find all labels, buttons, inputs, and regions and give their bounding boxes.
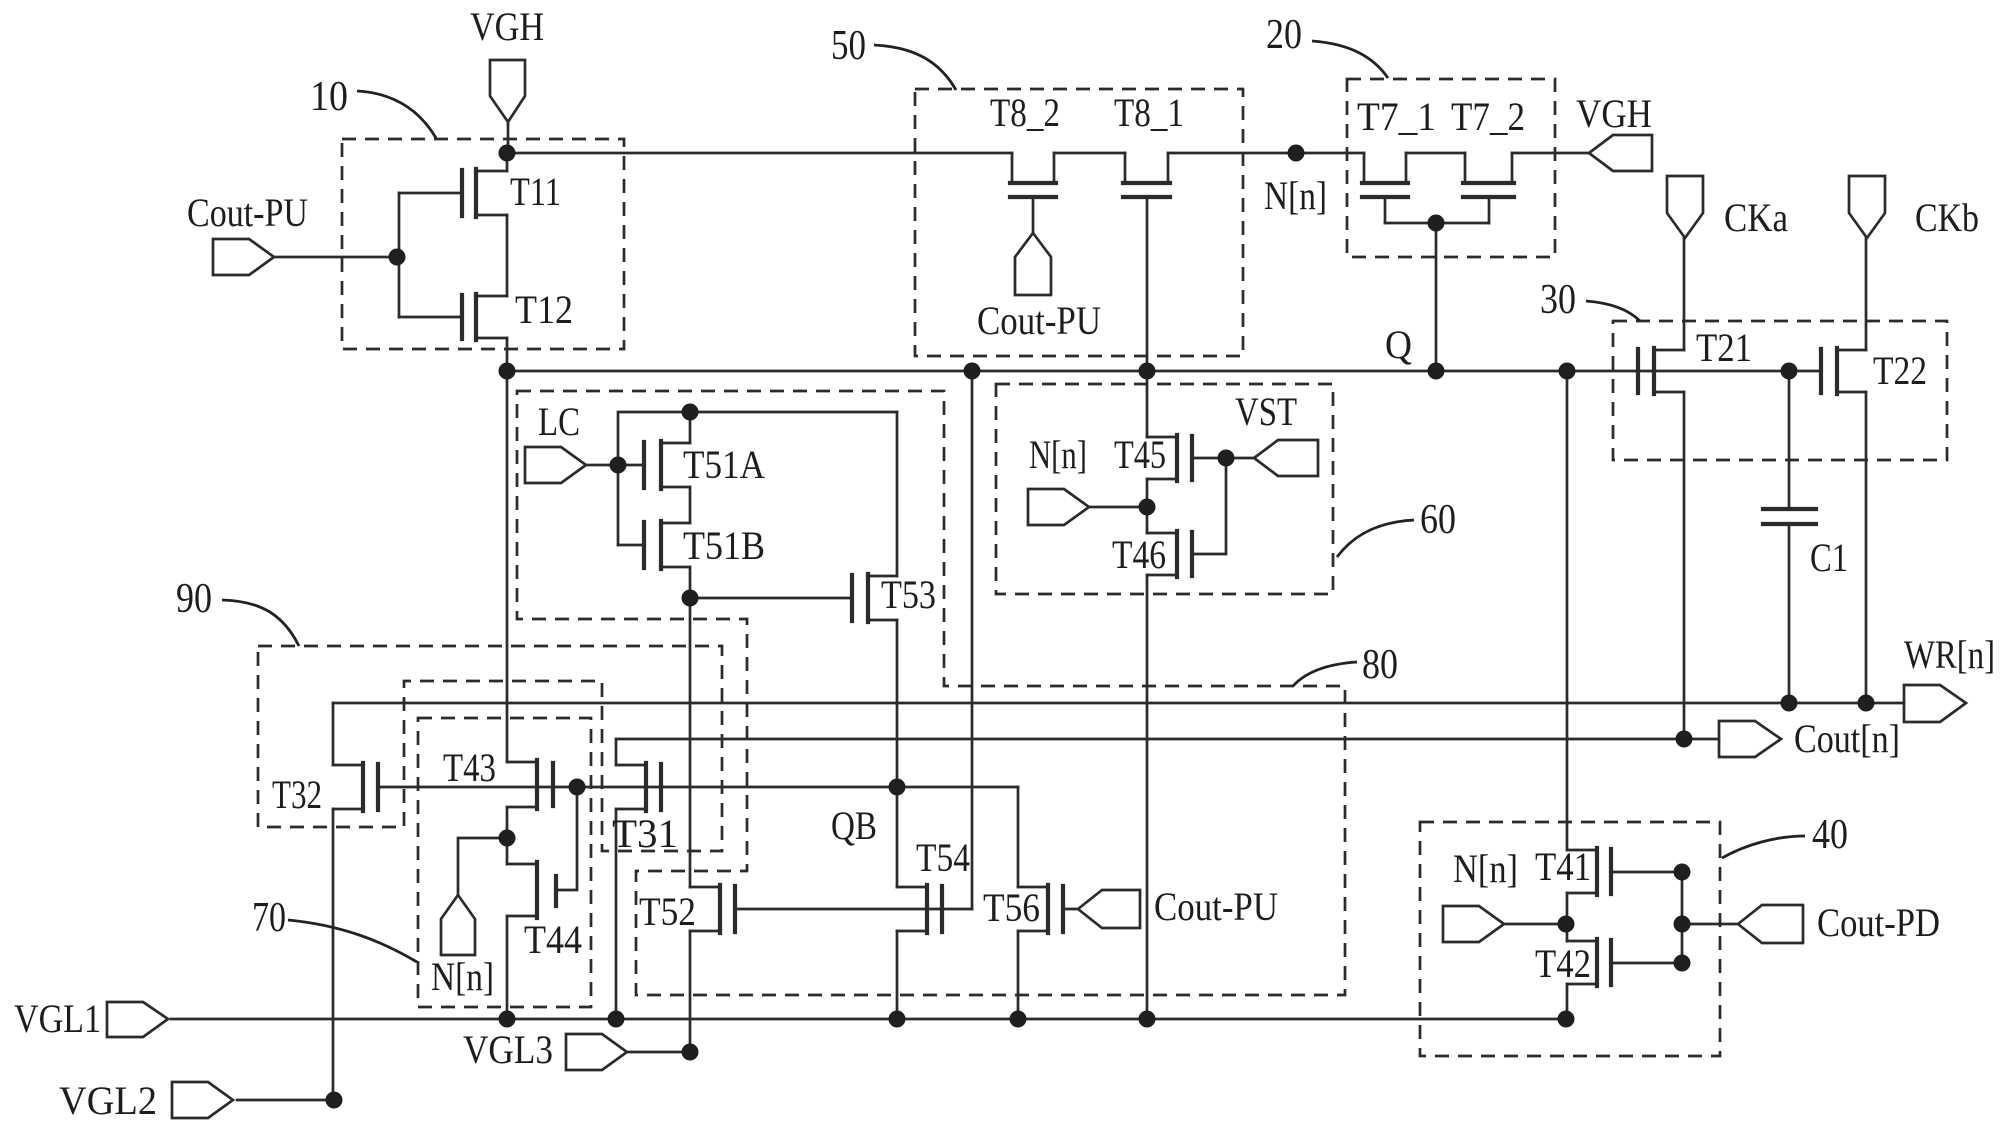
wire T46 source down to VGL1 — [1146, 575, 1149, 1019]
svg-text:Cout-PU: Cout-PU — [977, 298, 1101, 343]
wire T8_2 gate lead to Cout-PU terminal — [1032, 197, 1035, 233]
label 60 with leader — [1337, 497, 1456, 557]
wire T32 drain from WR rail — [332, 703, 335, 765]
svg-text:T11: T11 — [510, 169, 561, 214]
svg-text:VGL2: VGL2 — [59, 1078, 157, 1123]
node T51A drain rail — [682, 404, 699, 421]
wire T52/T54 gate rail — [735, 908, 972, 911]
transistor T42 — [1567, 939, 1682, 986]
node Q at T12 source — [499, 363, 516, 380]
node Cout[n] rail — [616, 738, 1719, 741]
node Q rail — [507, 370, 1821, 373]
svg-text:VGL3: VGL3 — [463, 1027, 553, 1072]
wire T43/T44 gate link vertical — [556, 787, 577, 890]
terminal VGH (top) — [490, 60, 525, 122]
svg-text:QB: QB — [831, 803, 877, 848]
svg-text:N[n]: N[n] — [431, 954, 494, 999]
wire T41 source to N[n] node to T42 drain — [1566, 893, 1569, 941]
transistor T41 — [1567, 848, 1682, 895]
transistor T56 — [1018, 885, 1078, 933]
wire T53 source down to QB node and T54 drain — [896, 620, 899, 887]
terminal Cout-PU (block 80) — [1078, 890, 1140, 928]
wire T21 source down to Cout rail — [1683, 392, 1686, 739]
block 10 dashed box — [342, 139, 624, 349]
wire T31 source down to VGL1 — [615, 809, 618, 1019]
block 90 dashed outline — [258, 646, 722, 851]
svg-text:T53: T53 — [881, 572, 936, 617]
node N[n] block 60 junction — [1139, 499, 1156, 516]
transistor T45 — [1147, 435, 1226, 481]
transistor T54 — [897, 885, 942, 933]
node VGL2 junction — [326, 1092, 343, 1109]
svg-text:CKb: CKb — [1915, 195, 1979, 240]
svg-text:T7_2: T7_2 — [1451, 94, 1525, 139]
node Q at T7 gate branch — [1428, 363, 1445, 380]
node VST gate junction — [1218, 450, 1235, 467]
wire T32 source down to VGL2 node — [332, 809, 335, 1100]
terminal VGL1 — [107, 1002, 168, 1037]
transistor T32 — [333, 763, 378, 811]
wire T12 source to Q rail — [506, 338, 509, 371]
transistor T12 — [399, 294, 507, 340]
svg-text:VGH: VGH — [1576, 91, 1652, 136]
wire top rail corner down to T53 drain — [896, 412, 899, 576]
wire QB-driver node to T53 gate — [690, 597, 852, 600]
transistor T31 — [616, 763, 661, 811]
svg-text:50: 50 — [831, 23, 866, 69]
transistor T21 — [1638, 348, 1684, 394]
transistor T44 — [507, 862, 556, 918]
svg-text:T8_1: T8_1 — [1114, 90, 1184, 135]
wire T43 source to N[n] node to T44 drain — [506, 809, 509, 864]
svg-text:VST: VST — [1235, 389, 1297, 434]
wire VGL2 terminal to T32 line — [237, 1099, 334, 1102]
node Q at C1/T22 gate — [1781, 363, 1798, 380]
wire T52 source down to VGL3 node — [689, 931, 692, 1052]
wire top rail segment (T8_1 to N[n] node and T7_1) — [1168, 152, 1364, 155]
wire N[n] terminal to node (block 40) — [1504, 923, 1567, 926]
terminal CKb — [1849, 176, 1885, 238]
svg-text:T56: T56 — [983, 885, 1040, 930]
svg-text:T21: T21 — [1696, 325, 1752, 370]
node T41 gate junction — [1674, 864, 1691, 881]
svg-text:70: 70 — [252, 895, 286, 941]
node Cout-PU gate junction — [389, 249, 406, 266]
node N[n] block 40 junction — [1558, 916, 1575, 933]
svg-text:N[n]: N[n] — [1264, 173, 1327, 218]
terminal N[n] (block 40) — [1443, 906, 1504, 942]
svg-text:T52: T52 — [639, 889, 696, 934]
wire LC terminal to gate node — [586, 464, 618, 467]
node Cout-PD junction — [1674, 916, 1691, 933]
transistor T7_1 — [1362, 153, 1408, 223]
wire C1 top to Q rail — [1788, 371, 1791, 509]
svg-text:VGH: VGH — [470, 4, 544, 49]
svg-text:LC: LC — [538, 399, 580, 444]
svg-text:T54: T54 — [916, 835, 970, 880]
node T21 source on Cout rail — [1676, 731, 1693, 748]
block 40 dashed box — [1420, 822, 1720, 1056]
svg-text:T8_2: T8_2 — [990, 90, 1060, 135]
label 40 with leader — [1722, 812, 1848, 858]
node VGL1 rail — [171, 1018, 1566, 1021]
node T42 gate junction — [1674, 955, 1691, 972]
label 70 with leader — [252, 895, 417, 962]
node T7 gate junction — [1428, 215, 1445, 232]
node LC gate junction — [610, 457, 627, 474]
svg-text:40: 40 — [1812, 812, 1848, 858]
transistor T8_2 — [1010, 153, 1056, 197]
wire top rail segment (T7_1 to T7_2) — [1406, 152, 1465, 155]
svg-text:T45: T45 — [1114, 432, 1166, 477]
wire top VGH rail segment (node to T8_2) — [507, 152, 1012, 155]
block 50 dashed box — [915, 89, 1243, 356]
transistor T43 — [507, 760, 553, 809]
wire top rail segment (T8_2 to T8_1) — [1054, 152, 1125, 155]
svg-text:20: 20 — [1266, 12, 1302, 58]
svg-text:N[n]: N[n] — [1029, 432, 1087, 477]
node VGH junction — [499, 145, 516, 162]
block 30 dashed box — [1613, 321, 1947, 460]
svg-text:T22: T22 — [1873, 348, 1927, 393]
node VGL3 junction — [682, 1044, 699, 1061]
wire T11/T12 gate bus vertical — [398, 193, 401, 317]
wire T41/T42 gate link — [1681, 872, 1684, 963]
capacitor C1 — [1763, 509, 1816, 524]
wire T54 source down to VGL1 — [896, 931, 899, 1019]
svg-text:T51B: T51B — [683, 523, 765, 568]
node VGL1 at T44 — [499, 1011, 516, 1028]
terminal WR[n] — [1904, 685, 1966, 722]
node QB gate junction left — [569, 779, 586, 796]
block 80 dashed outline — [517, 391, 1345, 995]
svg-text:T44: T44 — [524, 917, 582, 962]
svg-text:T7_1: T7_1 — [1357, 94, 1436, 139]
terminal VGH (block 20) — [1589, 135, 1652, 171]
terminal N[n] (block 60) — [1028, 489, 1089, 525]
wire main vertical VGH node to T11 drain — [506, 154, 509, 171]
terminal Cout-PD — [1738, 905, 1803, 943]
terminal Cout[n] — [1719, 721, 1781, 757]
wire Q node down to gate rail — [971, 371, 974, 909]
svg-text:T41: T41 — [1535, 844, 1591, 889]
svg-text:T31: T31 — [612, 811, 678, 856]
node N[n] on top rail — [1288, 145, 1305, 162]
wire gate link to Cout-PD terminal — [1682, 923, 1738, 926]
terminal Cout-PU (block 50) — [1015, 233, 1051, 295]
node QB junction — [889, 779, 906, 796]
node VGL1 at T31 — [608, 1011, 625, 1028]
block 60 dashed box — [996, 384, 1333, 594]
wire VGH stub to top rail node — [507, 122, 510, 153]
svg-text:C1: C1 — [1810, 535, 1848, 580]
label 90 with leader — [176, 576, 299, 646]
svg-text:T12: T12 — [515, 287, 573, 332]
node T51B source junction — [682, 590, 699, 607]
wire T31 drain from Cout rail — [615, 739, 618, 765]
transistor T46 — [1147, 531, 1192, 577]
transistor T22 — [1821, 348, 1866, 394]
wire T42 source down to VGL1 — [1566, 984, 1569, 1019]
terminal CKa — [1667, 176, 1703, 238]
wire Q node down to T41 drain — [1566, 371, 1569, 850]
block 20 dashed box — [1347, 79, 1555, 257]
wire LC node vertical and T51 top rail — [618, 412, 897, 545]
terminal N[n] (block 70) — [441, 895, 475, 955]
wire T51A drain up to top rail — [689, 412, 692, 443]
node VGL1 at T46 — [1139, 1011, 1156, 1028]
node T22 source on WR rail — [1858, 695, 1875, 712]
svg-text:T32: T32 — [272, 772, 322, 817]
wire Q node down to T43 — [506, 371, 509, 762]
wire top rail segment (T7_2 to VGH terminal) — [1512, 152, 1589, 155]
svg-text:10: 10 — [310, 74, 348, 120]
wire CKb down to T22 drain — [1865, 238, 1868, 350]
wire T44 source down to VGL1 — [506, 916, 509, 1019]
transistor T51B — [618, 521, 690, 569]
label 10 with leader — [310, 74, 436, 138]
terminal VGL2 — [172, 1082, 233, 1118]
node Q at T54 gate branch — [964, 363, 981, 380]
label 50 with leader — [831, 23, 956, 90]
svg-text:Q: Q — [1385, 322, 1412, 367]
label 30 with leader — [1540, 277, 1640, 323]
wire QB rail corner down to T56 drain — [1017, 787, 1020, 887]
transistor T8_1 — [1123, 153, 1170, 197]
svg-text:Cout-PU: Cout-PU — [187, 190, 308, 235]
wire T51A source to T51B drain — [689, 487, 692, 523]
wire N[n] node to terminal (block 70) — [458, 838, 507, 895]
wire C1 bottom to WR rail — [1788, 524, 1791, 703]
svg-text:Cout[n]: Cout[n] — [1794, 716, 1900, 761]
wire Cout-PU input to T11/T12 gate node — [274, 256, 399, 259]
wire VST node link — [1192, 458, 1254, 554]
wire QB-driver node down to T52 drain — [689, 598, 692, 887]
svg-text:T43: T43 — [443, 745, 496, 790]
svg-text:90: 90 — [176, 576, 212, 622]
wire T11 source to T12 drain — [506, 215, 509, 296]
svg-text:60: 60 — [1420, 497, 1456, 543]
node QB gate rail (T32 gate to T31/T54 area) — [378, 786, 1018, 789]
node Q at T45 branch — [1139, 363, 1156, 380]
wire T7 gate bus — [1385, 223, 1489, 371]
label 80 with leader — [1293, 642, 1398, 688]
node Q at T41 branch — [1559, 363, 1576, 380]
block 70 dashed box — [418, 718, 591, 1007]
svg-text:T46: T46 — [1112, 532, 1166, 577]
transistor T52 — [690, 885, 735, 933]
terminal LC — [525, 447, 586, 483]
svg-text:VGL1: VGL1 — [14, 996, 101, 1041]
terminal VGL3 — [566, 1034, 627, 1070]
wire CKa down to T21 drain — [1683, 238, 1686, 350]
svg-text:Cout-PD: Cout-PD — [1817, 900, 1940, 945]
wire N[n] terminal to node (block 60) — [1089, 506, 1147, 509]
wire T45 source to N[n] node to T46 drain — [1146, 479, 1149, 533]
node N[n] block 70 junction — [499, 830, 516, 847]
transistor T11 — [399, 169, 507, 217]
svg-text:N[n]: N[n] — [1453, 846, 1518, 891]
transistor T53 — [852, 574, 897, 622]
transistor T51A — [618, 441, 690, 489]
wire T8_1 gate long vertical to Q and T45 — [1146, 197, 1149, 437]
wire T22 source down to WR rail — [1865, 392, 1868, 703]
node VGL1 at T42 — [1558, 1011, 1575, 1028]
node VGL1 at T54 — [889, 1011, 906, 1028]
transistor T7_2 — [1463, 153, 1514, 223]
svg-text:WR[n]: WR[n] — [1904, 632, 1995, 677]
svg-text:T51A: T51A — [683, 442, 765, 487]
terminal VST — [1254, 440, 1318, 476]
node VGL1 at T56 — [1010, 1011, 1027, 1028]
svg-text:30: 30 — [1540, 277, 1576, 323]
svg-text:T42: T42 — [1535, 941, 1591, 986]
node C1 on WR rail — [1781, 695, 1798, 712]
svg-text:CKa: CKa — [1724, 195, 1788, 240]
wire T51B source to QB-driver node — [689, 567, 692, 598]
terminal Cout-PU (left input) — [213, 239, 274, 275]
node WR[n] rail — [333, 702, 1904, 705]
wire VGL3 terminal to T52 line — [627, 1051, 690, 1054]
wire T56 source down to VGL1 — [1017, 931, 1020, 1019]
svg-text:Cout-PU: Cout-PU — [1154, 884, 1278, 929]
label 20 with leader — [1266, 12, 1388, 78]
svg-text:80: 80 — [1362, 642, 1398, 688]
